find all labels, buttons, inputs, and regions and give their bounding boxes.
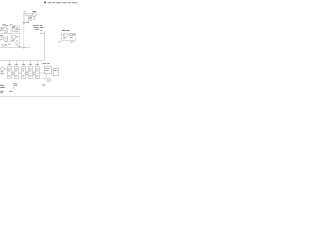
- label: [2, 23, 6, 26]
- wire: [0, 47, 30, 49]
- label: [42, 62, 49, 65]
- label: [0, 24, 18, 42]
- wire: [60, 32, 62, 41]
- label: [0, 29, 2, 32]
- crystal Y1: [33, 13, 36, 16]
- divider stage U2: [7, 67, 11, 79]
- wire: [9, 60, 37, 66]
- divider stage U6: [35, 67, 39, 79]
- wire: [75, 33, 77, 40]
- label: [0, 35, 3, 37]
- terminal J1: [1, 28, 2, 29]
- note: [0, 91, 12, 93]
- capacitor C4: [73, 33, 76, 35]
- label: [58, 41, 73, 44]
- resistor R2: [13, 29, 16, 32]
- wire: [0, 59, 44, 61]
- coupling capacitor C6: [12, 71, 15, 73]
- label: [40, 32, 44, 35]
- wire: [14, 42, 20, 44]
- label: [25, 14, 27, 17]
- wire: [33, 16, 35, 19]
- pin labels: [8, 69, 39, 77]
- resistor R4: [12, 36, 15, 39]
- label: [1, 71, 4, 74]
- resistor R6: [70, 34, 73, 36]
- capacitor C2: [0, 27, 3, 29]
- label: [4, 44, 7, 47]
- block U7: [44, 66, 52, 73]
- table: [13, 83, 18, 88]
- label: [8, 63, 39, 66]
- wire: [23, 25, 25, 48]
- wire: [61, 39, 75, 41]
- label: [11, 39, 14, 42]
- wire: [23, 12, 25, 23]
- coupling capacitor C8: [33, 71, 36, 73]
- label: [33, 10, 36, 13]
- transistor Q2: [3, 37, 6, 40]
- capacitor C5: [23, 22, 26, 24]
- header title text: [48, 1, 78, 4]
- junction: [18, 45, 20, 48]
- label: [62, 29, 70, 32]
- wire: [10, 28, 12, 34]
- logo: [44, 2, 46, 4]
- oscillator block U1: [1, 68, 4, 71]
- wire: [43, 31, 45, 61]
- node A: [34, 18, 36, 21]
- label: [26, 21, 29, 24]
- capacitor C9: [16, 27, 19, 29]
- node B: [40, 29, 42, 32]
- capacitor C3: [1, 44, 4, 46]
- label: [12, 26, 15, 28]
- wire: [52, 69, 53, 71]
- label: [33, 25, 44, 29]
- block U8: [53, 68, 58, 76]
- label: [15, 44, 18, 47]
- divider stage U5: [28, 67, 32, 79]
- wire: [10, 34, 12, 40]
- label: [42, 84, 45, 87]
- wire: [6, 28, 8, 34]
- wire: [24, 13, 33, 15]
- note: [0, 85, 4, 88]
- label: [63, 37, 66, 40]
- label: [16, 28, 18, 31]
- divider stage U4: [21, 67, 25, 79]
- antenna stub: [24, 11, 27, 13]
- wire: [3, 25, 20, 27]
- junction: [12, 73, 35, 76]
- relay K1: [28, 16, 32, 21]
- wire: [61, 34, 75, 36]
- ground: [23, 47, 26, 48]
- lamp DS1: [47, 78, 51, 82]
- transistor Q3: [63, 33, 67, 37]
- label: [8, 43, 10, 46]
- diode D1: [10, 41, 12, 43]
- wire: [0, 33, 20, 35]
- footer rule: [0, 96, 80, 98]
- resistor R3: [7, 36, 9, 42]
- transistor Q1: [3, 27, 6, 30]
- divider stage U3: [14, 67, 18, 79]
- wire: [4, 69, 44, 73]
- wire: [19, 26, 21, 48]
- coupling capacitor C7: [26, 71, 29, 73]
- wire: [42, 74, 47, 79]
- label: [70, 36, 73, 39]
